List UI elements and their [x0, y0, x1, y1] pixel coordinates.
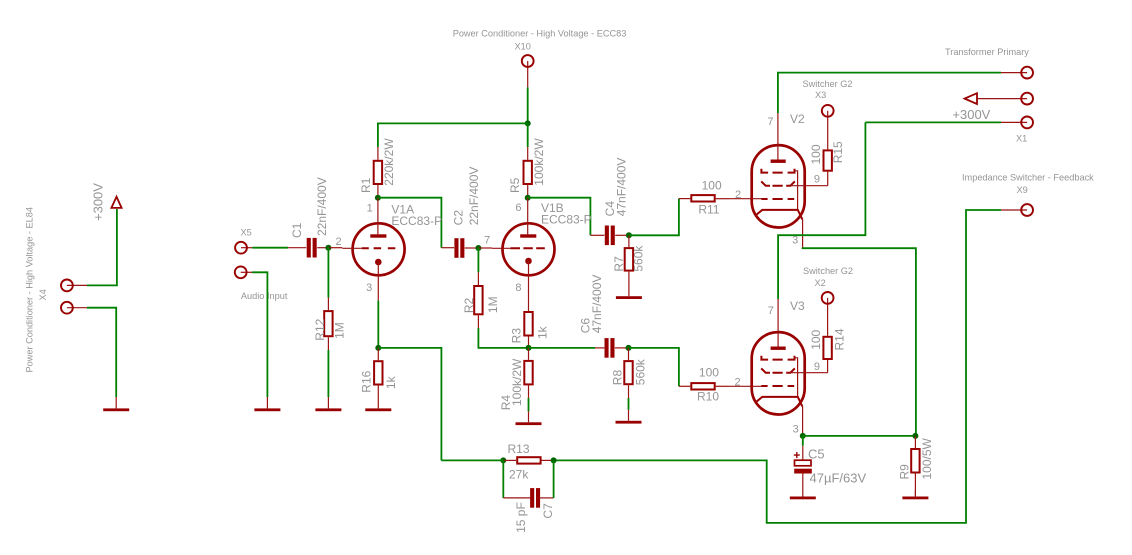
resistor R10 right pin	[716, 385, 729, 387]
resistor R14	[823, 337, 831, 359]
wire junction to C6	[529, 347, 596, 349]
node HV junction	[525, 120, 531, 126]
wire audio ground pin to ground	[252, 272, 267, 397]
resistor R5 top pin	[527, 147, 529, 160]
supply +300V arrow right	[965, 93, 977, 104]
svg-text:560k: 560k	[633, 358, 647, 385]
svg-text:+300V: +300V	[91, 183, 106, 221]
svg-text:100/5W: 100/5W	[920, 437, 934, 479]
svg-text:C2: C2	[452, 210, 466, 226]
resistor R9	[911, 449, 919, 473]
wire V1A anode node to C2	[378, 198, 442, 248]
connector X5 pin	[241, 247, 252, 249]
svg-text:Audio Input: Audio Input	[241, 291, 288, 301]
tube V1B grid pin outer lead	[478, 247, 492, 249]
wire V1B anode node to C4	[528, 198, 591, 236]
tube V1A pin 2 grid lead	[342, 247, 362, 249]
node V3 cathode junction	[800, 433, 806, 439]
wire junction down to R2	[477, 248, 479, 272]
capacitor C5 bottom pin	[802, 474, 804, 491]
tube V2 pin 7 anode lead	[777, 113, 779, 160]
capacitor C6 left pin	[595, 347, 604, 349]
capacitor C2	[454, 238, 458, 258]
svg-text:100k/2W: 100k/2W	[510, 358, 524, 406]
node C1/R12/V1A-grid junction	[325, 245, 331, 251]
svg-text:R2: R2	[462, 297, 476, 313]
capacitor C4	[605, 226, 609, 246]
connector X9 pin	[1001, 209, 1027, 211]
capacitor C1 right pin	[317, 247, 328, 249]
node R13 left junction	[500, 457, 506, 463]
connector X4 pin 1	[67, 284, 87, 286]
capacitor C5 plus sign	[794, 452, 800, 458]
wire R4 to ground	[528, 398, 530, 412]
wire HV junction to R5	[527, 123, 529, 147]
resistor R4	[524, 361, 532, 385]
ground below R9	[914, 490, 916, 497]
svg-text:Power Conditioner - High Volta: Power Conditioner - High Voltage - ECC83	[453, 29, 627, 39]
wire V2 cathode down and right	[803, 248, 916, 436]
svg-text:Transformer Primary: Transformer Primary	[945, 47, 1029, 57]
ground below R12	[327, 397, 329, 408]
svg-text:1M: 1M	[332, 322, 346, 339]
ground below X4	[115, 397, 117, 408]
svg-text:X3: X3	[815, 90, 826, 100]
ground below R8	[628, 410, 630, 421]
wire V2 anode to transformer primary	[778, 73, 1001, 113]
resistor R10 left pin	[679, 385, 690, 387]
resistor R9 bottom pin	[914, 474, 916, 497]
wire HV junction to R1 branch	[378, 123, 528, 147]
resistor R4 top pin	[528, 348, 530, 360]
wire X10 to HV node	[527, 87, 529, 123]
svg-text:R14: R14	[833, 328, 847, 350]
resistor R15	[824, 150, 832, 170]
svg-text:C7: C7	[541, 503, 555, 519]
ground below R7	[628, 284, 630, 296]
wire X1 +300V net to V3 anode rail	[865, 121, 1001, 123]
svg-text:R16: R16	[359, 370, 373, 392]
resistor R2 bottom pin	[477, 315, 479, 328]
tube V1B pin 8 cathode lead	[528, 261, 530, 311]
svg-text:100: 100	[699, 366, 719, 380]
capacitor C7 left pin	[503, 497, 531, 499]
svg-text:C1: C1	[290, 222, 304, 238]
resistor R12 top pin	[327, 298, 329, 311]
capacitor C1 left pin	[288, 247, 306, 249]
wire X5 to C1	[252, 247, 288, 249]
node R13 right junction	[551, 457, 557, 463]
svg-text:560k: 560k	[632, 245, 646, 272]
resistor R8	[624, 361, 632, 384]
resistor R11 right pin	[716, 198, 729, 200]
svg-text:V3: V3	[790, 299, 805, 313]
resistor R7 bottom pin	[628, 272, 630, 284]
svg-text:1M: 1M	[486, 296, 500, 313]
svg-text:8: 8	[515, 282, 521, 294]
resistor R12	[324, 311, 332, 336]
svg-text:9: 9	[814, 174, 820, 186]
tube V2 pin 3 cathode lead	[802, 220, 804, 248]
svg-text:2: 2	[335, 236, 341, 248]
svg-text:3: 3	[366, 282, 372, 294]
supply +300V arrow left	[111, 197, 121, 208]
svg-text:C5: C5	[808, 447, 825, 462]
wire C6 junction to R10 branch	[629, 348, 679, 386]
svg-text:100: 100	[702, 179, 722, 193]
node C2/R2/V1B-grid junction	[475, 245, 481, 251]
ground below C5	[802, 490, 804, 497]
connector X1 pin	[1001, 121, 1027, 123]
svg-text:1k: 1k	[384, 375, 398, 389]
wire R2 to cathode feedback row	[478, 328, 528, 348]
transistor pentode V3 body	[752, 332, 805, 414]
svg-text:47nF/400V: 47nF/400V	[590, 275, 604, 334]
svg-text:V2: V2	[790, 112, 805, 126]
resistor R11 left pin	[679, 198, 690, 200]
wire junction down to R12	[327, 248, 329, 298]
svg-text:1k: 1k	[536, 325, 550, 339]
resistor R3	[524, 312, 532, 336]
svg-text:3: 3	[792, 234, 798, 246]
tube V1B cathode dot	[525, 258, 532, 265]
connector X3 pin	[827, 111, 829, 150]
svg-text:ECC83-P: ECC83-P	[541, 213, 592, 227]
resistor R10	[691, 383, 714, 389]
wire V1A cathode node to feedback	[378, 348, 441, 461]
wire C7 left branch	[502, 460, 504, 498]
svg-text:X5: X5	[241, 228, 252, 238]
capacitor C7	[530, 488, 534, 508]
svg-text:15 pF: 15 pF	[514, 502, 528, 533]
resistor R9 top pin	[914, 436, 916, 448]
wire C7 right branch	[553, 460, 555, 498]
svg-text:X2: X2	[815, 278, 826, 288]
resistor R1 top pin	[377, 147, 379, 160]
svg-text:R3: R3	[510, 328, 524, 344]
resistor R7 top pin	[628, 235, 630, 247]
svg-text:220k/2W: 220k/2W	[382, 138, 396, 186]
wire feedback to R13 left node	[441, 459, 503, 461]
node V1A cathode junction	[375, 345, 381, 351]
tube V3 pin 9 g2 lead	[791, 372, 828, 374]
svg-text:X9: X9	[1017, 185, 1028, 195]
node R9 junction	[912, 433, 918, 439]
wire R12 to ground	[327, 350, 329, 397]
resistor R5 bottom pin	[527, 185, 529, 198]
capacitor C2 left pin	[441, 247, 454, 249]
resistor R7	[625, 248, 633, 271]
node C4/R7 junction	[626, 232, 632, 238]
tube V1B pin 7 grid lead	[492, 247, 511, 249]
tube V2 pin 2 grid lead	[729, 198, 767, 200]
tube V1A grid pin outer lead	[328, 247, 342, 249]
capacitor C6	[605, 338, 609, 358]
wire cathode node to C5	[802, 436, 804, 446]
wire R8 to ground	[628, 398, 630, 410]
capacitor C2 right pin	[465, 247, 479, 249]
tube V1B anode pin outer lead	[527, 198, 529, 211]
resistor R8 top pin	[628, 348, 630, 360]
resistor R16	[374, 361, 382, 384]
resistor R16 top pin	[377, 348, 379, 360]
resistor R16 bottom pin	[377, 386, 379, 398]
tube V1A pin 3 cathode lead	[377, 262, 379, 301]
capacitor C7 right pin	[539, 497, 553, 499]
resistor R13	[517, 457, 540, 463]
resistor R11	[691, 195, 714, 201]
wire V3 cathode node to R9 node	[803, 435, 916, 437]
capacitor C6 right pin	[615, 347, 629, 349]
ground below audio input	[266, 397, 268, 408]
resistor R1 bottom pin	[377, 185, 379, 198]
svg-text:2: 2	[734, 377, 740, 389]
node C6/R8 junction	[626, 345, 632, 351]
svg-text:Switcher G2: Switcher G2	[803, 266, 853, 276]
connector X4 pin 2	[67, 307, 87, 309]
resistor R3 bottom pin	[528, 337, 530, 348]
tube V3 pin 7 anode lead	[777, 299, 779, 347]
svg-text:R13: R13	[508, 442, 530, 456]
connector audio ground pin	[241, 271, 252, 273]
svg-text:ECC83-P: ECC83-P	[391, 214, 442, 228]
tube V1B pin 6 anode lead	[527, 210, 529, 234]
svg-text:100k/2W: 100k/2W	[532, 138, 546, 186]
svg-text:7: 7	[484, 234, 490, 246]
connector X10 pin	[527, 61, 529, 87]
node V1B anode junction	[525, 195, 531, 201]
ground below R16	[377, 397, 379, 408]
capacitor C4 right pin	[615, 234, 629, 236]
svg-text:Switcher G2: Switcher G2	[803, 79, 853, 89]
svg-text:R7: R7	[612, 256, 626, 272]
svg-text:R15: R15	[831, 141, 845, 163]
resistor R15 bottom pin to V2 g2	[827, 172, 829, 186]
capacitor C5 polarized plates	[795, 460, 812, 466]
svg-text:7: 7	[768, 305, 774, 317]
resistor R13 right pin	[542, 459, 554, 461]
resistor R12 bottom pin	[327, 337, 329, 350]
wire V3 anode from +300V rail	[778, 122, 865, 299]
svg-text:7: 7	[767, 116, 773, 128]
connector transformer primary pin 2	[977, 98, 1027, 100]
svg-text:1: 1	[367, 203, 373, 215]
op-amp triode V1A body	[353, 223, 405, 275]
connector transformer primary pin 1	[1001, 72, 1027, 74]
svg-text:100: 100	[809, 329, 823, 349]
svg-text:22nF/400V: 22nF/400V	[315, 177, 329, 236]
ground below R4	[528, 411, 530, 422]
svg-text:47nF/400V: 47nF/400V	[614, 158, 628, 217]
tube V1A grid dashes	[362, 247, 396, 249]
svg-text:R8: R8	[610, 370, 624, 386]
svg-text:X4: X4	[38, 289, 48, 300]
svg-text:X10: X10	[515, 42, 531, 52]
tube V1A pin 1 anode lead	[377, 198, 379, 235]
wire X4 pin2 to ground	[87, 308, 116, 397]
svg-text:Power Conditioner - High Volta: Power Conditioner - High Voltage - EL84	[24, 207, 34, 372]
resistor R1	[374, 161, 382, 184]
transistor pentode V2 body	[752, 145, 805, 227]
resistor R13 left pin	[503, 459, 516, 461]
capacitor C1	[307, 238, 311, 258]
tube V1B grid dashes	[511, 247, 545, 249]
svg-text:47µF/63V: 47µF/63V	[810, 471, 867, 486]
svg-text:X1: X1	[1016, 134, 1027, 144]
capacitor C5 plus pin	[802, 446, 804, 460]
resistor R8 bottom pin	[628, 385, 630, 398]
node V1A anode junction	[375, 195, 381, 201]
connector X2 pin	[827, 298, 829, 336]
svg-text:R9: R9	[898, 464, 912, 480]
resistor R14 bottom pin to V3 g2	[827, 360, 829, 373]
svg-text:+300V: +300V	[952, 107, 990, 122]
svg-text:9: 9	[814, 361, 820, 373]
wire X9 feedback net	[554, 210, 1001, 523]
svg-text:100: 100	[809, 144, 823, 164]
wire V1A cathode to node	[377, 301, 379, 348]
svg-text:22nF/400V: 22nF/400V	[467, 167, 481, 226]
node R3/R4 junction	[526, 345, 532, 351]
svg-text:3: 3	[793, 424, 799, 436]
tube V3 pin 3 cathode lead	[802, 407, 804, 435]
svg-text:R1: R1	[359, 177, 373, 193]
capacitor C4 left pin	[590, 234, 604, 236]
svg-text:6: 6	[515, 202, 521, 214]
resistor R4 bottom pin	[528, 385, 530, 398]
tube V1A cathode dot	[375, 259, 382, 266]
svg-text:R5: R5	[508, 177, 522, 193]
tube V2 pin 9 g2 lead	[791, 185, 828, 187]
wire X4 pin1 to +300V supply	[87, 209, 117, 285]
svg-text:R10: R10	[697, 389, 719, 403]
tube V3 pin 2 grid lead	[729, 385, 767, 387]
svg-text:R11: R11	[698, 203, 719, 217]
svg-text:R12: R12	[313, 318, 327, 340]
resistor R5	[524, 161, 532, 184]
resistor R2 top pin	[477, 272, 479, 285]
wire C4 junction to R11 branch	[629, 199, 679, 236]
svg-text:27k: 27k	[509, 467, 529, 481]
resistor R2	[474, 286, 482, 314]
svg-text:Impedance Switcher - Feedback: Impedance Switcher - Feedback	[962, 173, 1094, 183]
op-amp triode V1B body	[503, 223, 555, 275]
